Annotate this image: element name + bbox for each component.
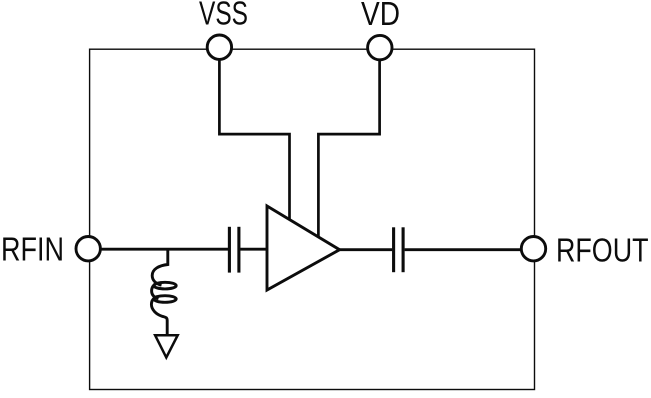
svg-text:VD: VD [361, 0, 400, 32]
svg-text:RFIN: RFIN [1, 231, 64, 268]
svg-text:RFOUT: RFOUT [556, 231, 649, 268]
svg-text:VSS: VSS [199, 0, 248, 32]
